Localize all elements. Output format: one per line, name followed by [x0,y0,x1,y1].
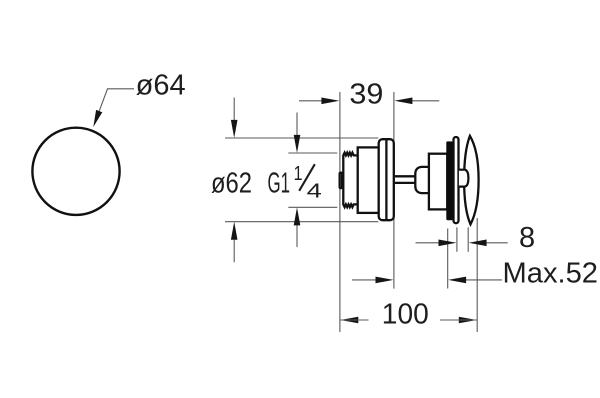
seal washer [446,141,452,220]
leader arrowhead ø64 [93,110,102,127]
svg-text:ø62: ø62 [211,167,252,199]
svg-text:39: 39 [349,79,383,111]
dim Max.52 left arrowhead [376,277,394,284]
linkage knob [415,167,430,193]
thread top serration [343,153,357,156]
dim 8 left arrowhead [439,240,457,247]
extension line top of dim G1 1/4 [288,152,337,154]
svg-text:100: 100 [382,299,429,331]
svg-text:Max.52: Max.52 [503,258,599,290]
dim 8 right arrowhead [469,240,487,247]
fraction slash [299,164,315,191]
extension line top of dim ø62 [225,137,378,139]
dim ø62 bottom dimension line [233,240,235,263]
dim 39 left dimension line [299,100,322,102]
extension line left of dim 8 [456,227,458,252]
stem top line [395,175,416,177]
extension line right of Max.52 (seal face) [447,229,449,289]
flange inner line [385,140,387,219]
extension line bottom of dim G1 1/4 [288,206,337,208]
extension line right of dim 8 [467,227,469,252]
dim 100 right dimension line [440,319,477,321]
thread left edge [342,155,344,205]
plug cylinder [429,154,447,210]
body flange [379,139,394,220]
dim 100 left arrowhead [340,317,358,324]
leader line ø64 [99,89,134,111]
dim 39 left arrowhead [321,98,339,105]
stem bottom line [395,182,416,184]
dim ø62 top dimension line [233,98,235,121]
valve body [358,147,379,213]
svg-text:4: 4 [307,180,322,202]
svg-text:1: 1 [294,163,303,185]
extension line bottom of dim ø62 [225,221,378,223]
dim 8 right dimension line [486,242,508,244]
tailpiece tip [340,173,343,189]
dim G1 1/4 top arrowhead [294,135,301,153]
thread bottom serration [343,204,357,207]
plug cap [464,136,479,224]
threaded section fill [343,153,357,207]
plug disc [454,137,459,223]
dim 100 left dimension line [340,319,368,321]
dim 100 right arrowhead [459,317,477,324]
dim 8 left dimension line [416,242,439,244]
dim ø62 bottom arrowhead [231,222,238,240]
cap top view circle ø64 [32,128,119,215]
dim G1 1/4 bottom arrowhead [294,207,301,225]
extension line right of dim 39 / left of Max.52 (flange face) [393,92,395,289]
dim Max.52 left dimension line [352,279,376,281]
svg-text:G1: G1 [268,167,291,199]
svg-text:8: 8 [519,222,535,254]
cap hub connector [459,170,469,187]
dim G1 1/4 top dimension line [296,113,298,136]
dim ø62 top arrowhead [231,120,238,138]
dim 39 right dimension line [412,100,439,102]
extension line right of dim 100 (cap edge) [476,218,478,332]
dim Max.52 right arrowhead [448,277,466,284]
dim 39 right arrowhead [394,98,412,105]
dim G1 1/4 bottom dimension line [296,225,298,247]
svg-text:ø64: ø64 [136,69,186,101]
dim Max.52 right dimension line [466,279,502,281]
extension line left shared by dims 39 and 100 [339,92,341,332]
